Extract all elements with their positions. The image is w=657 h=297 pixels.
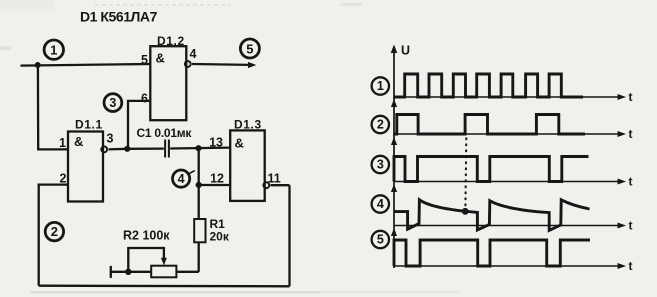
wire node1 down to pin 1 <box>38 65 68 149</box>
svg-text:t: t <box>629 127 633 141</box>
t axis row 3 <box>394 175 633 189</box>
node 3 (trace id) <box>372 156 389 173</box>
junction pin 12 <box>196 182 202 188</box>
node 1 (trace id) <box>372 77 389 94</box>
scan artifacts (decorative) <box>0 0 460 293</box>
svg-text:U: U <box>401 44 410 58</box>
svg-text:t: t <box>629 259 633 273</box>
svg-text:13: 13 <box>209 136 223 150</box>
svg-text:4: 4 <box>178 172 185 186</box>
junction R2 wiper <box>125 269 131 275</box>
capacitor C1 <box>127 140 230 158</box>
waveform 1 (clock) <box>394 74 583 97</box>
U axis <box>391 45 398 269</box>
svg-text:5: 5 <box>377 233 384 247</box>
svg-text:&: & <box>235 136 244 151</box>
node 4 <box>173 170 195 187</box>
junction node 3 left <box>124 146 130 152</box>
svg-text:t: t <box>629 219 633 233</box>
svg-text:D1 К561ЛА7: D1 К561ЛА7 <box>80 8 158 24</box>
wire right vertical down <box>288 185 290 286</box>
svg-text:t: t <box>629 175 633 189</box>
R2 wiper arm <box>128 248 167 272</box>
svg-text:4: 4 <box>190 47 197 61</box>
wire node4 vertical (C1 to pin12 to R1) <box>198 148 200 219</box>
waveform 4 (sawtooth) <box>394 200 590 231</box>
svg-text:5: 5 <box>141 53 148 67</box>
t axis row 4 <box>394 219 633 233</box>
svg-text:D1.3: D1.3 <box>234 118 262 132</box>
gate D1.1 <box>68 132 107 202</box>
node 5 (trace id) <box>372 231 389 248</box>
node 1 <box>44 40 63 59</box>
wire bottom (node 2 net) <box>39 285 290 288</box>
svg-text:1: 1 <box>59 136 66 150</box>
waveform 2 <box>394 115 585 135</box>
svg-text:3: 3 <box>109 96 116 110</box>
node 5 <box>240 39 259 58</box>
resistor R1 <box>194 219 205 272</box>
t axis row 1 <box>394 90 633 104</box>
t axis row 5 <box>394 259 633 273</box>
svg-text:1: 1 <box>50 42 57 57</box>
wire pin2 down left vertical <box>39 185 68 286</box>
resistor R2 (potentiometer) <box>111 266 199 278</box>
svg-text:R2 100к: R2 100к <box>123 229 170 243</box>
svg-text:2: 2 <box>51 224 58 239</box>
node 3 <box>104 94 122 112</box>
junction node C1 right <box>195 145 201 151</box>
wire node3 up to pin 6 <box>128 101 150 149</box>
waveform 3 <box>394 157 589 182</box>
svg-text:1: 1 <box>377 79 384 93</box>
node 2 (trace id) <box>372 116 389 133</box>
junction node 1 <box>35 62 41 68</box>
svg-text:C1 0.01мк: C1 0.01мк <box>137 126 193 140</box>
svg-text:5: 5 <box>246 41 253 56</box>
wire pin11 to right vertical <box>271 184 290 186</box>
svg-text:D1.1: D1.1 <box>75 118 103 132</box>
wire input to D1.2 pin 5 <box>21 64 151 66</box>
svg-text:&: & <box>74 134 83 149</box>
svg-text:&: & <box>156 51 165 66</box>
gate D1.2 <box>150 46 190 120</box>
threshold dotted line <box>464 138 467 208</box>
svg-text:D1.2: D1.2 <box>157 34 185 48</box>
waveform 5 <box>394 240 590 266</box>
svg-text:3: 3 <box>377 158 384 172</box>
svg-text:3: 3 <box>107 132 114 146</box>
svg-text:12: 12 <box>210 172 224 186</box>
svg-text:2: 2 <box>60 172 67 186</box>
gate D1.3 <box>230 130 269 201</box>
threshold dot <box>462 208 469 215</box>
node 4 (trace id) <box>372 195 389 212</box>
node 2 <box>45 222 63 240</box>
wire output pin4 with arrow <box>192 62 256 68</box>
wire pin 12 <box>199 184 231 186</box>
wire pin3 to node 3 <box>109 148 128 151</box>
t axis row 2 <box>394 127 633 141</box>
svg-text:2: 2 <box>377 118 384 132</box>
svg-text:11: 11 <box>268 172 281 186</box>
svg-text:20к: 20к <box>210 230 230 244</box>
svg-text:t: t <box>629 90 633 104</box>
svg-text:6: 6 <box>141 92 148 106</box>
svg-text:4: 4 <box>377 197 384 211</box>
